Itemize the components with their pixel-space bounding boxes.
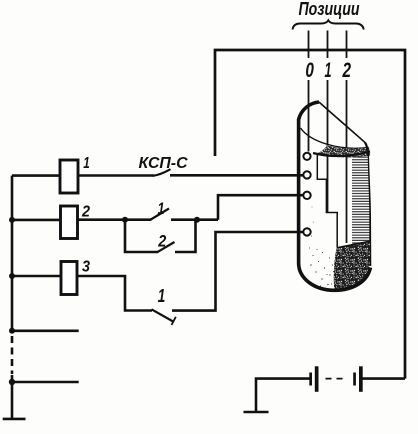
svg-text:1: 1 (83, 155, 90, 172)
svg-text:2: 2 (81, 204, 90, 221)
svg-text:3: 3 (82, 259, 90, 276)
svg-text:1: 1 (158, 199, 165, 218)
svg-text:1: 1 (158, 286, 166, 306)
svg-text:1: 1 (325, 59, 332, 82)
svg-text:Позиции: Позиции (299, 0, 360, 19)
svg-text:2: 2 (157, 231, 166, 250)
svg-text:0: 0 (305, 59, 314, 82)
svg-text:2: 2 (342, 59, 351, 82)
svg-text:КСП-С: КСП-С (139, 155, 188, 172)
